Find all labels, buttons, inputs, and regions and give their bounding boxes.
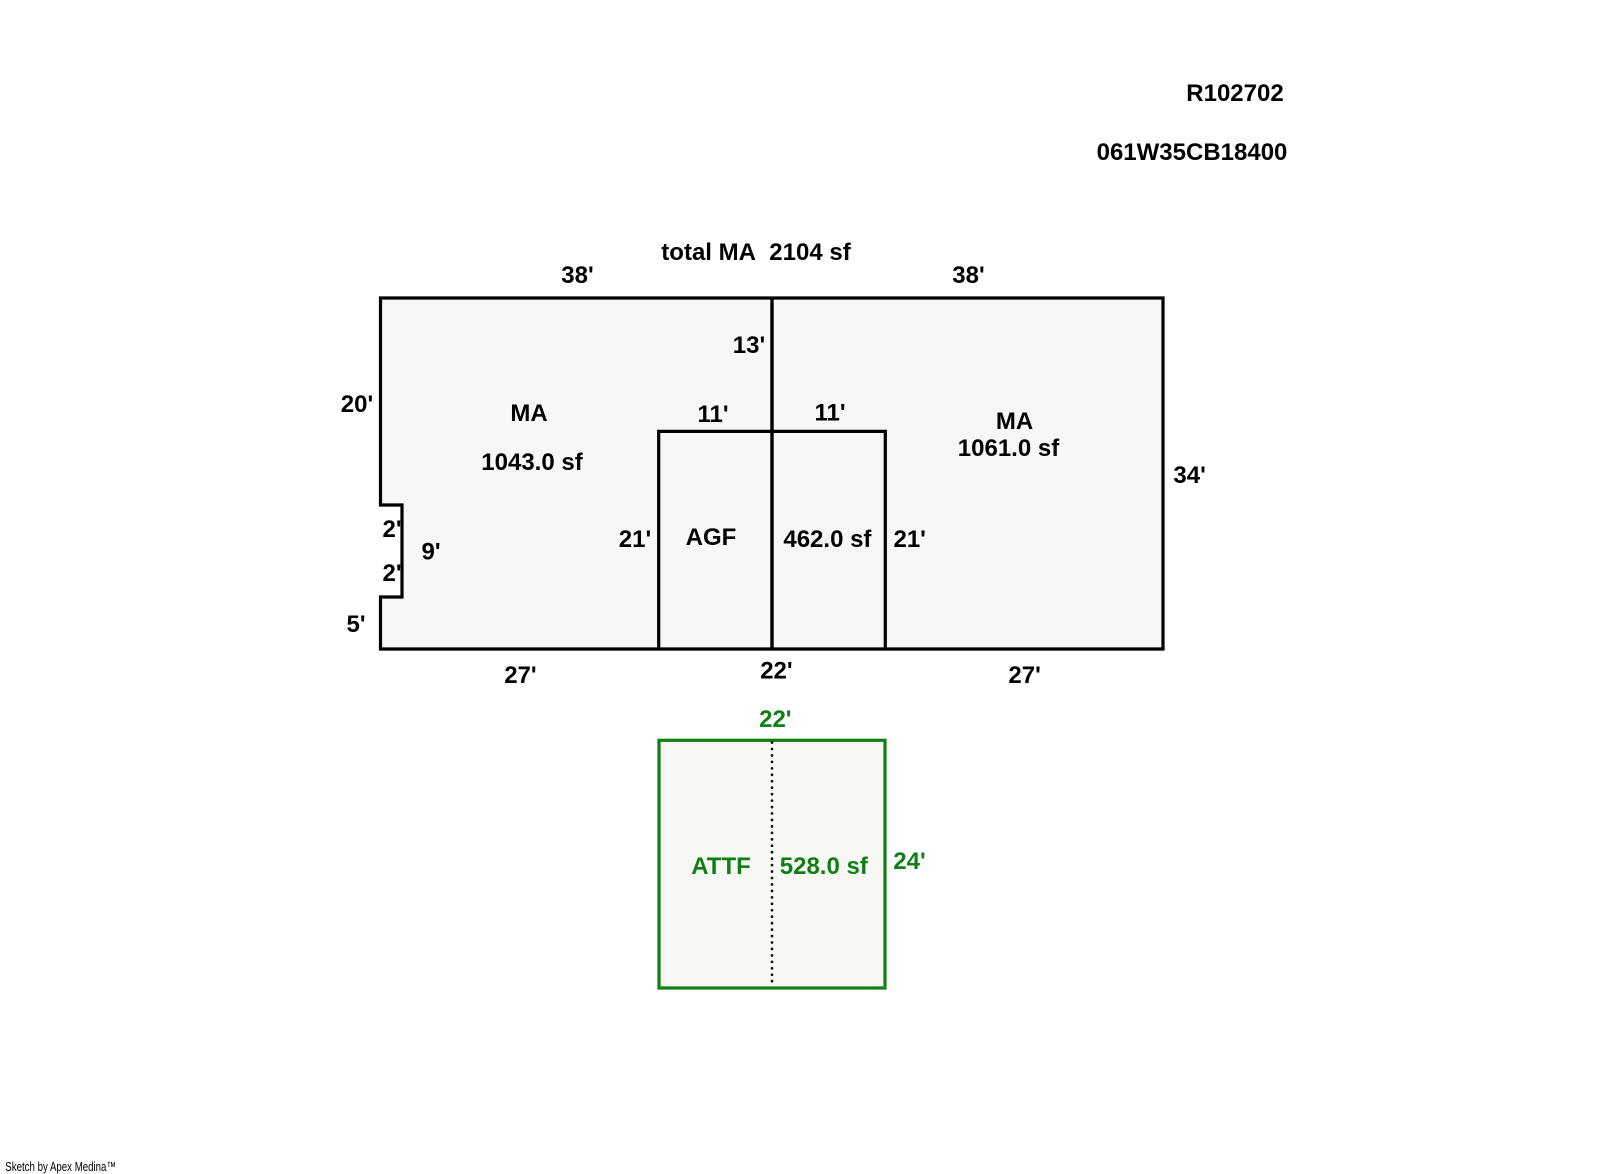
svg-text:5': 5': [346, 611, 365, 638]
attic center dotted divider line: [771, 743, 774, 988]
svg-text:13': 13': [733, 332, 765, 359]
svg-text:total MA 2104 sf: total MA 2104 sf: [661, 239, 851, 266]
svg-text:38': 38': [561, 262, 593, 289]
svg-text:061W35CB18400: 061W35CB18400: [1097, 139, 1288, 166]
svg-text:21': 21': [619, 526, 651, 553]
svg-text:528.0 sf: 528.0 sf: [780, 853, 869, 880]
svg-text:20': 20': [341, 391, 373, 418]
svg-text:11': 11': [697, 401, 728, 428]
svg-text:27': 27': [504, 662, 536, 689]
svg-text:MA: MA: [996, 408, 1033, 435]
svg-text:462.0 sf: 462.0 sf: [783, 526, 872, 553]
svg-text:9': 9': [421, 539, 440, 566]
svg-text:AGF: AGF: [686, 524, 737, 551]
svg-text:38': 38': [952, 262, 984, 289]
svg-text:22': 22': [760, 658, 792, 685]
svg-text:1061.0 sf: 1061.0 sf: [958, 435, 1060, 462]
svg-text:11': 11': [814, 400, 845, 427]
svg-text:Sketch by Apex Medina™: Sketch by Apex Medina™: [5, 1161, 116, 1174]
interior wall: center vertical line (13' segment): [770, 298, 773, 649]
svg-text:2': 2': [382, 516, 401, 543]
svg-text:34': 34': [1173, 462, 1205, 489]
svg-text:2': 2': [382, 560, 401, 587]
main area outline (MA perimeter with notch): [381, 298, 1164, 649]
svg-text:ATTF: ATTF: [691, 853, 751, 880]
svg-text:1043.0 sf: 1043.0 sf: [481, 449, 583, 476]
svg-text:21': 21': [893, 526, 925, 553]
svg-text:22': 22': [759, 706, 791, 733]
ATTF attic box outline (green): [659, 740, 885, 988]
svg-text:MA: MA: [510, 400, 547, 427]
svg-text:24': 24': [893, 848, 925, 875]
AGF garage box outline: [659, 431, 886, 649]
svg-text:27': 27': [1008, 662, 1040, 689]
svg-text:R102702: R102702: [1186, 80, 1283, 107]
